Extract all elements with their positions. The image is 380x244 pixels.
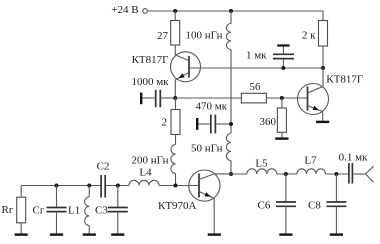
wire output line (231, 173, 348, 175)
node junction L1 (87, 184, 91, 188)
node junction top rail / 100nH (229, 9, 233, 13)
node junction 2k / Q2 collector (321, 66, 325, 70)
svg-text:470 мк: 470 мк (196, 100, 228, 112)
ground Q2 emitter (316, 121, 329, 123)
node junction 50nH / output line (229, 172, 233, 176)
resistor 360 (281, 98, 283, 108)
svg-text:L1: L1 (68, 205, 80, 217)
svg-text:100 нГн: 100 нГн (186, 30, 223, 42)
svg-text:Rг: Rг (2, 204, 14, 216)
node junction C6 (284, 172, 288, 176)
wire top supply rail (147, 11, 323, 21)
node junction top rail / R 27 (173, 9, 177, 13)
node junction C3 (116, 184, 120, 188)
node output fork (366, 166, 374, 182)
node junction 470uk / x231 (229, 122, 233, 126)
ground Сг (50, 233, 63, 235)
svg-text:0.1 мк: 0.1 мк (339, 151, 368, 163)
wire Q2 emitter down (322, 112, 324, 121)
wire bottom rail (21, 185, 199, 187)
inductor 50 нГн (226, 134, 231, 161)
svg-text:1 мк: 1 мк (246, 50, 267, 62)
svg-text:КТ817Г: КТ817Г (132, 54, 169, 66)
svg-text:КТ817Г: КТ817Г (326, 73, 363, 85)
node junction 360 / base line (280, 96, 284, 100)
svg-text:C8: C8 (308, 199, 321, 211)
transistor Q1 КТ817Г (171, 52, 201, 82)
svg-text:C2: C2 (97, 160, 110, 172)
node +24V terminal (143, 9, 148, 14)
ground C6 (279, 233, 292, 235)
capacitor 470 мк (196, 118, 198, 130)
wire mid vertical x231 (230, 50, 232, 134)
ground 360 (275, 137, 288, 139)
ground C3 (111, 233, 124, 235)
svg-text:L4: L4 (139, 167, 152, 179)
svg-text:C6: C6 (258, 199, 271, 211)
wire base rail y68 (189, 67, 323, 69)
svg-text:1000 мк: 1000 мк (131, 76, 169, 88)
ground Rг (15, 233, 28, 235)
node junction 1uk / rail (281, 66, 285, 70)
wire Q3 emitter down (213, 198, 215, 233)
svg-text:+24 В: +24 В (111, 4, 138, 16)
capacitor 1000 мк input (140, 93, 142, 105)
ground C8 (330, 233, 343, 235)
wire R27 leads (174, 11, 176, 55)
node junction Q3 base / 200nH (174, 184, 178, 188)
wire y98 line left (175, 97, 241, 99)
resistor 56 (241, 93, 266, 103)
svg-text:КТ970А: КТ970А (158, 200, 197, 212)
ground Q3 (208, 233, 221, 235)
svg-text:Сг: Сг (33, 205, 45, 217)
wire y98 line right (266, 97, 307, 99)
resistor 2 (175, 98, 177, 110)
svg-text:27: 27 (157, 30, 169, 42)
capacitor 1 мк (to chassis) (277, 44, 289, 46)
svg-text:C3: C3 (95, 205, 108, 217)
wire 50nH bottom (230, 161, 232, 175)
resistor 27 (171, 21, 180, 46)
node junction Сг (55, 184, 59, 188)
svg-text:360: 360 (260, 116, 277, 128)
transistor Q3 КТ970А (189, 170, 220, 201)
wire Q1 emitter down (174, 80, 176, 98)
svg-text:56: 56 (250, 81, 262, 93)
ground L1 (83, 233, 96, 235)
svg-text:L5: L5 (255, 158, 268, 170)
transistor Q2 КТ817Г (298, 84, 329, 115)
svg-text:2 к: 2 к (302, 29, 316, 41)
svg-text:L7: L7 (304, 155, 317, 167)
inductor 200 нГн (171, 145, 176, 174)
svg-text:50 нГн: 50 нГн (191, 142, 223, 154)
node junction Q1 emitter / 1000uk / R2 (173, 96, 177, 100)
node junction C8 (334, 172, 338, 176)
wire 100nH top lead (230, 11, 232, 24)
wire output to fork (353, 173, 365, 175)
svg-text:2: 2 (162, 116, 168, 128)
svg-text:200 нГн: 200 нГн (132, 154, 169, 166)
resistor 2 к (319, 21, 328, 47)
inductor 100 нГн (226, 24, 231, 50)
wire 2k bottom lead (322, 46, 324, 68)
